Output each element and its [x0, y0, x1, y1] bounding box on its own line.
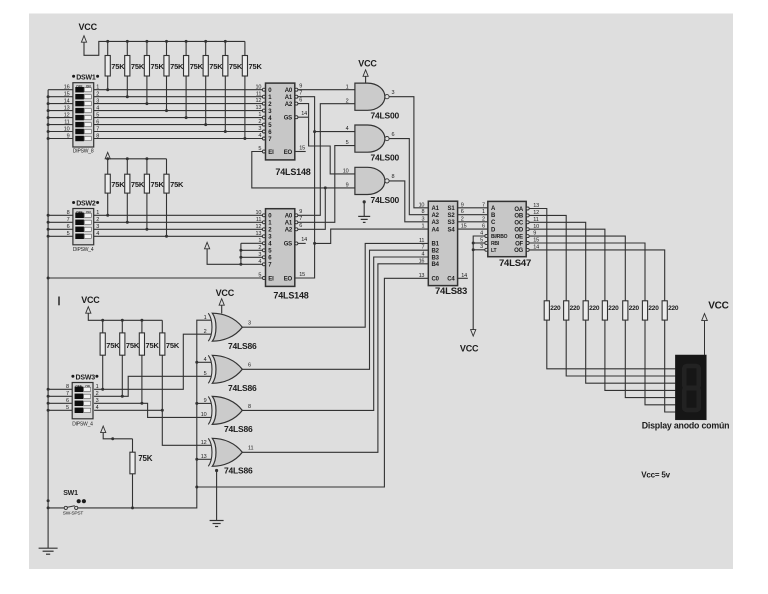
wire: U5A out to U4 B1	[242, 243, 428, 327]
svg-text:74LS148: 74LS148	[275, 167, 310, 177]
svg-text:1: 1	[96, 85, 99, 91]
power VCC (SW1 pull-up)	[101, 426, 133, 440]
svg-text:1: 1	[96, 384, 99, 390]
svg-text:75K: 75K	[106, 341, 120, 350]
svg-text:DIPSW_4: DIPSW_4	[72, 422, 93, 428]
wire: U6 OC to resistor R20	[529, 222, 586, 300]
svg-text:3: 3	[480, 244, 483, 250]
svg-text:OC: OC	[514, 221, 523, 227]
nand-gate U3B 74LS00	[346, 125, 400, 163]
svg-text:A2: A2	[432, 213, 440, 219]
wire: DSW3 left pin rows to ground bus	[48, 389, 72, 410]
resistor R21 220	[602, 301, 619, 320]
wire: U5B out to U4 B2	[242, 250, 428, 369]
svg-text:DSW1: DSW1	[76, 75, 96, 82]
svg-text:6: 6	[66, 398, 69, 404]
svg-text:8: 8	[248, 404, 251, 410]
svg-text:C0: C0	[432, 277, 440, 283]
wire: VCC rail junction dots	[106, 40, 227, 43]
svg-text:75K: 75K	[146, 341, 160, 350]
xor-gate U5B 74LS86	[204, 355, 257, 393]
wire: DSW3 row2 to U5B pin 5	[94, 376, 211, 396]
svg-text:11: 11	[256, 91, 261, 97]
wire: control net to U4 C0	[197, 278, 428, 487]
wire: U4 S rows to U6 inputs A-D	[458, 208, 488, 229]
svg-text:74LS00: 74LS00	[371, 111, 400, 121]
wire: DSW2 left pin rows to ground bus	[48, 215, 73, 236]
svg-text:2: 2	[96, 391, 99, 397]
nand-gate U3A 74LS00	[346, 83, 400, 120]
svg-text:74LS00: 74LS00	[371, 153, 400, 163]
svg-text:11: 11	[64, 119, 69, 125]
svg-text:15: 15	[299, 145, 305, 151]
svg-text:13: 13	[255, 105, 261, 111]
svg-text:SW1: SW1	[63, 490, 78, 497]
resistor R5 75K	[184, 41, 204, 119]
display DS1 7-segment (anodo comun)	[675, 355, 706, 420]
svg-text:15: 15	[299, 272, 305, 278]
wire: U1 A1 net (U3B pin 4, U4 A4, U2 EO)	[295, 97, 429, 278]
svg-text:Display anodo común: Display anodo común	[642, 421, 730, 431]
power VCC (pull-up rail DSW2)	[105, 152, 166, 160]
resistor R14 75K	[120, 320, 140, 398]
svg-text:SW-SPST: SW-SPST	[63, 511, 84, 517]
svg-text:6: 6	[248, 363, 251, 369]
svg-text:14: 14	[64, 98, 70, 104]
wire: DSW3 row1 to U5A pin 2	[94, 334, 211, 389]
svg-text:B4: B4	[432, 262, 440, 268]
encoder U2 74LS148	[255, 209, 308, 301]
svg-text:6: 6	[67, 224, 70, 230]
svg-text:A0: A0	[285, 214, 293, 220]
svg-text:5: 5	[480, 237, 483, 243]
wire: SW1 control net to XOR first inputs	[133, 320, 212, 508]
wire: DSW2 rows to U2 inputs 0-3	[94, 215, 263, 236]
svg-text:OA: OA	[514, 207, 523, 213]
svg-text:7: 7	[67, 217, 70, 223]
svg-text:4: 4	[258, 133, 261, 139]
svg-text:2: 2	[96, 92, 99, 98]
svg-text:5: 5	[346, 140, 349, 146]
ground (U5 74LS86)	[210, 469, 224, 527]
svg-text:4: 4	[96, 405, 99, 411]
resistor R16 75K	[160, 320, 180, 412]
svg-text:75K: 75K	[111, 62, 125, 71]
resistor R6 75K	[203, 41, 223, 126]
wire: DSW1 left pin rows to ground bus	[48, 90, 73, 139]
wire: R21 to display segment d	[605, 320, 676, 390]
svg-text:11: 11	[248, 446, 253, 452]
svg-text:74LS148: 74LS148	[273, 291, 308, 301]
svg-text:74LS86: 74LS86	[228, 341, 257, 351]
DIP switch DSW3 (DIPSW_4)	[66, 374, 99, 427]
svg-text:5: 5	[67, 231, 70, 237]
wire: U2 EI to ground bus	[48, 277, 262, 279]
label: Display anodo comun	[642, 421, 730, 431]
wire: R18 to display segment a	[547, 320, 676, 369]
svg-text:12: 12	[255, 224, 261, 230]
svg-text:5: 5	[66, 405, 69, 411]
svg-text:A2: A2	[285, 228, 293, 234]
svg-text:B2: B2	[432, 249, 440, 255]
wire: R24 to display segment g	[665, 320, 676, 412]
power VCC (U5 74LS86)	[216, 288, 235, 313]
resistor R4 75K	[164, 41, 184, 112]
svg-text:GS: GS	[284, 116, 292, 122]
svg-text:75K: 75K	[151, 180, 165, 189]
svg-text:75K: 75K	[209, 62, 223, 71]
svg-text:6: 6	[482, 224, 485, 230]
svg-text:B3: B3	[432, 255, 440, 261]
svg-text:S2: S2	[448, 213, 456, 219]
label: Vcc = 5v	[641, 470, 670, 479]
svg-text:4: 4	[480, 230, 483, 236]
svg-text:75K: 75K	[190, 62, 204, 71]
svg-text:VCC: VCC	[708, 301, 729, 312]
power VCC (pull-up rail DSW3)	[81, 295, 162, 322]
svg-text:10: 10	[255, 84, 261, 90]
svg-text:12: 12	[64, 112, 70, 118]
resistor R19 220	[564, 301, 581, 320]
svg-text:74LS86: 74LS86	[228, 383, 257, 393]
adder U4 74LS83	[419, 201, 468, 297]
svg-text:EI: EI	[268, 150, 274, 156]
svg-text:10: 10	[343, 169, 349, 175]
wire: DSW1 rows to 74LS148 U1 inputs	[94, 90, 263, 139]
svg-text:3: 3	[248, 321, 251, 327]
svg-text:75K: 75K	[151, 62, 165, 71]
resistor R13 75K	[100, 320, 120, 391]
resistor R22 220	[623, 301, 640, 320]
DIP switch DSW1 (DIPSW_8)	[64, 75, 100, 155]
node stray mark	[58, 297, 60, 306]
resistor R18 220	[544, 301, 561, 320]
wire: U6 OB to resistor R19	[529, 215, 566, 300]
svg-text:12: 12	[255, 98, 261, 104]
svg-text:2: 2	[482, 216, 485, 222]
svg-text:16: 16	[64, 85, 70, 91]
svg-text:75K: 75K	[126, 341, 140, 350]
svg-text:OB: OB	[514, 214, 523, 220]
svg-text:VCC: VCC	[358, 59, 377, 69]
svg-text:S3: S3	[448, 220, 456, 226]
svg-text:OE: OE	[515, 234, 523, 240]
resistor R7 75K	[223, 41, 243, 133]
resistor R1 75K	[105, 41, 125, 91]
svg-text:RBI: RBI	[491, 241, 500, 247]
svg-text:2: 2	[96, 217, 99, 223]
svg-text:A2: A2	[285, 102, 293, 108]
wire: R22 to display segment e	[625, 320, 675, 398]
svg-text:10: 10	[64, 126, 70, 132]
svg-text:14: 14	[301, 111, 307, 117]
svg-text:10: 10	[419, 202, 425, 208]
svg-text:Vcc= 5v: Vcc= 5v	[641, 470, 670, 479]
svg-text:7: 7	[299, 91, 302, 97]
svg-text:VCC: VCC	[460, 344, 479, 354]
wire: U2 A2 to U3C pin 9 riser	[298, 188, 325, 229]
wire: U1 GS stub pin 14	[298, 116, 308, 118]
DIP switch DSW2 (DIPSW_4)	[67, 201, 100, 253]
svg-text:3: 3	[258, 126, 261, 132]
svg-text:220: 220	[648, 305, 659, 312]
svg-text:1: 1	[96, 210, 99, 216]
svg-text:75K: 75K	[249, 62, 263, 71]
svg-text:3: 3	[96, 398, 99, 404]
svg-text:6: 6	[299, 98, 302, 104]
svg-text:A1: A1	[432, 206, 440, 212]
resistor R12 75K	[164, 159, 184, 238]
xor-gate U5C 74LS86	[201, 396, 253, 434]
svg-text:75K: 75K	[111, 180, 125, 189]
svg-text:13: 13	[255, 231, 261, 237]
svg-text:11: 11	[256, 217, 261, 223]
svg-text:7: 7	[299, 216, 302, 222]
svg-text:S1: S1	[448, 206, 456, 212]
svg-text:10: 10	[255, 210, 261, 216]
wire: U3B out to U4 A2	[389, 139, 428, 215]
power VCC (pull-up rail DSW1)	[79, 22, 245, 55]
svg-text:S4: S4	[448, 227, 456, 233]
resistor R24 220	[662, 301, 679, 320]
wire: U1 EI / U2 A2 / NAND U3C pin 9 net	[252, 152, 355, 190]
wire: U2 A0 to U3A pin 2	[298, 104, 355, 216]
power VCC (display anode)	[702, 301, 729, 356]
svg-text:1: 1	[346, 84, 349, 90]
svg-text:3: 3	[96, 98, 99, 104]
svg-text:2: 2	[258, 119, 261, 125]
svg-text:OF: OF	[515, 241, 523, 247]
svg-text:75K: 75K	[166, 341, 180, 350]
svg-text:A4: A4	[432, 227, 440, 233]
svg-text:9: 9	[67, 133, 70, 139]
svg-text:1: 1	[258, 112, 261, 118]
svg-text:220: 220	[668, 305, 679, 312]
svg-text:3: 3	[392, 90, 395, 96]
wire: U1 EO stub pin 15	[295, 151, 306, 153]
svg-text:3: 3	[421, 216, 424, 222]
svg-text:8: 8	[421, 209, 424, 215]
wire: U6 OF to resistor R23	[529, 243, 645, 301]
svg-text:LT: LT	[491, 248, 496, 254]
svg-text:7: 7	[482, 202, 485, 208]
svg-text:3: 3	[96, 224, 99, 230]
svg-text:74LS83: 74LS83	[435, 286, 467, 297]
wire: U5C out to U4 B3	[242, 257, 428, 410]
wire: U2 A1 to U3B pin 5	[298, 146, 355, 223]
svg-text:74LS47: 74LS47	[499, 258, 531, 269]
svg-text:75K: 75K	[229, 62, 243, 71]
svg-text:B1: B1	[432, 242, 440, 248]
svg-text:74LS00: 74LS00	[371, 195, 400, 205]
svg-text:4: 4	[96, 231, 99, 237]
svg-text:DIPSW_4: DIPSW_4	[73, 247, 94, 253]
svg-text:VCC: VCC	[79, 22, 98, 32]
resistor R11 75K	[144, 159, 164, 231]
wire: U1 A0 to U3A pin 1	[298, 89, 355, 91]
svg-text:5: 5	[96, 112, 99, 118]
nand-gate U3C 74LS00	[343, 167, 400, 205]
svg-text:A3: A3	[432, 220, 440, 226]
svg-text:A0: A0	[285, 88, 293, 94]
svg-text:75K: 75K	[138, 454, 152, 463]
svg-text:75K: 75K	[131, 180, 145, 189]
svg-text:4: 4	[346, 126, 349, 132]
svg-text:GS: GS	[284, 242, 292, 248]
resistor R9 75K	[105, 159, 125, 217]
svg-text:9: 9	[299, 84, 302, 90]
svg-text:220: 220	[608, 305, 619, 312]
power VCC (U3 74LS00)	[358, 59, 377, 84]
wire: R20 to display segment c	[586, 320, 676, 383]
wire: DSW3 row4 to U5D pin 12	[94, 410, 211, 445]
power VCC (U6 BI RBI LT tie)	[460, 236, 485, 354]
svg-text:8: 8	[67, 210, 70, 216]
svg-text:4: 4	[96, 105, 99, 111]
svg-text:EO: EO	[284, 150, 293, 156]
svg-text:15: 15	[64, 92, 70, 98]
svg-text:220: 220	[629, 305, 640, 312]
resistor R15 75K	[139, 320, 159, 405]
svg-text:75K: 75K	[170, 62, 184, 71]
resistor R20 220	[583, 301, 600, 320]
svg-text:7: 7	[96, 126, 99, 132]
svg-text:OD: OD	[514, 228, 523, 234]
svg-text:DSW2: DSW2	[76, 201, 96, 208]
wire: U6 OD to resistor R21	[529, 229, 605, 301]
wire: U6 OG to resistor R24	[529, 250, 665, 301]
svg-text:EI: EI	[268, 276, 274, 282]
resistor R2 75K	[125, 41, 145, 98]
resistor R23 220	[642, 301, 659, 320]
svg-text:VCC: VCC	[216, 288, 235, 298]
svg-text:OG: OG	[514, 248, 523, 254]
resistor R8 75K	[242, 41, 262, 140]
svg-text:DSW3: DSW3	[76, 374, 96, 381]
resistor R10 75K	[125, 159, 145, 224]
svg-text:A1: A1	[285, 221, 293, 227]
svg-text:DIPSW_8: DIPSW_8	[73, 149, 94, 155]
wire: U3A out to U4 A1	[389, 97, 428, 208]
wire: U3C out to U4 A3	[389, 181, 428, 222]
svg-text:6: 6	[96, 119, 99, 125]
svg-text:8: 8	[96, 133, 99, 139]
svg-text:VCC: VCC	[81, 295, 100, 305]
wire: U1 A2 to U3C pin 10	[298, 104, 355, 174]
svg-text:13: 13	[64, 105, 70, 111]
xor-gate U5A 74LS86	[204, 313, 257, 351]
svg-text:6: 6	[299, 223, 302, 229]
svg-text:14: 14	[301, 237, 307, 243]
svg-text:220: 220	[550, 305, 561, 312]
svg-text:BI/RBO: BI/RBO	[491, 234, 508, 240]
switch SW1 SW-SPST	[48, 490, 132, 517]
ground (U3 74LS00)	[358, 200, 370, 222]
svg-text:6: 6	[392, 132, 395, 138]
wire: U5D out to U4 B4	[242, 264, 428, 453]
svg-text:220: 220	[570, 305, 581, 312]
svg-text:2: 2	[346, 98, 349, 104]
wire: R19 to display segment b	[566, 320, 675, 376]
power VCC (U2 inputs 4-7 pull-up)	[205, 242, 263, 265]
svg-text:220: 220	[589, 305, 600, 312]
wire: ground bus (left common)	[47, 90, 50, 549]
wire: U6 OE to resistor R22	[529, 236, 625, 301]
wire: U4 C4 stub pin 14	[458, 277, 468, 279]
encoder U1 74LS148	[255, 83, 310, 177]
svg-text:74LS86: 74LS86	[224, 466, 253, 476]
svg-text:EO: EO	[284, 276, 293, 282]
wire: U6 OA to resistor R18	[529, 209, 547, 301]
svg-text:9: 9	[346, 183, 349, 189]
svg-text:A1: A1	[285, 95, 293, 101]
svg-text:75K: 75K	[170, 180, 184, 189]
wire: DSW3 row3 to U5C pin 10	[94, 403, 211, 417]
svg-text:1: 1	[421, 224, 424, 230]
wire: R23 to display segment f	[645, 320, 675, 405]
xor-gate U5D 74LS86	[201, 438, 254, 475]
svg-text:8: 8	[66, 384, 69, 390]
svg-text:75K: 75K	[131, 62, 145, 71]
svg-text:C4: C4	[447, 277, 455, 283]
resistor R3 75K	[144, 41, 164, 105]
wire: U2 GS stub pin 14	[298, 242, 306, 244]
ground (bus bottom)	[39, 548, 58, 554]
decoder U6 74LS47	[480, 201, 539, 269]
resistor R17 75K	[130, 439, 153, 510]
svg-text:8: 8	[392, 174, 395, 180]
svg-text:7: 7	[66, 391, 69, 397]
svg-text:9: 9	[299, 209, 302, 215]
svg-text:74LS86: 74LS86	[224, 424, 253, 434]
svg-text:1: 1	[482, 209, 485, 215]
